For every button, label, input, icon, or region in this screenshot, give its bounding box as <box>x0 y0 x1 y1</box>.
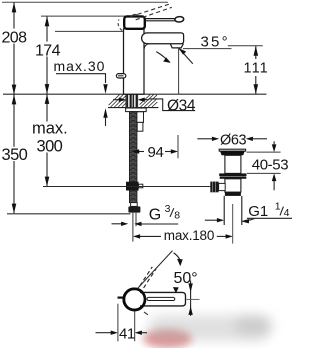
svg-text:Ø63: Ø63 <box>220 132 247 148</box>
spout outlet extension line down <box>178 48 180 94</box>
extension below nut <box>132 213 134 242</box>
hose end tube <box>131 203 138 207</box>
dimension 41 <box>117 304 119 342</box>
extension line cap-top level <box>41 15 129 17</box>
dimension line 174/max300 (x=47) <box>46 17 48 186</box>
svg-text:max.: max. <box>32 120 68 138</box>
extension line spout-top level <box>55 30 124 32</box>
dimension diam63 <box>197 138 212 140</box>
pop-up rod guide blocks <box>137 112 144 123</box>
pop-up waste flange <box>219 149 245 151</box>
dimension max.180 <box>133 234 140 238</box>
lever swing phantom arc <box>118 20 122 31</box>
dimension line 208/350 (x=14) <box>13 3 15 214</box>
svg-text:41: 41 <box>119 326 135 343</box>
pop-up rod horizontal <box>43 186 210 188</box>
svg-text:94: 94 <box>148 144 164 161</box>
washer under deck <box>126 108 147 112</box>
lever bar <box>145 18 176 20</box>
pop-up upper body <box>225 155 241 173</box>
watermark red blob <box>143 329 192 348</box>
max.30 arrows at deck <box>103 84 107 94</box>
top view circle (faucet body) <box>124 289 145 310</box>
svg-text:G1: G1 <box>248 203 268 220</box>
deck hatching left <box>109 95 126 107</box>
cartridge cap <box>124 16 145 28</box>
small tick lower right of circle <box>144 312 148 315</box>
svg-text:1: 1 <box>275 200 281 212</box>
350 lower extension line <box>7 213 130 215</box>
watermark grey blur <box>148 315 270 341</box>
threaded shank through deck <box>126 94 138 107</box>
pop-up tailpipe <box>224 196 242 225</box>
rod stem <box>219 183 226 190</box>
svg-text:35°: 35° <box>201 33 230 50</box>
lever tip <box>175 16 184 22</box>
body-spout fillet <box>144 44 150 49</box>
svg-text:300: 300 <box>37 137 63 155</box>
faucet body <box>124 29 145 94</box>
svg-text:Ø34: Ø34 <box>167 97 196 114</box>
dimension arrows diam34 at deck <box>113 99 119 101</box>
deck bottom line <box>108 107 159 109</box>
deck reference line <box>3 93 267 95</box>
faucet axis line <box>131 95 133 112</box>
dimension 111 <box>255 46 257 94</box>
lever pivot hook <box>132 14 138 16</box>
svg-text:111: 111 <box>244 60 269 76</box>
pop-up bottom collar <box>225 192 241 196</box>
G1 1/4 arrows at pipe <box>205 219 217 221</box>
lever phantom dashed 50deg <box>138 251 173 289</box>
svg-text:50°: 50° <box>174 270 198 287</box>
hose column under deck <box>130 112 137 203</box>
svg-text:174: 174 <box>35 42 61 59</box>
svg-text:40-53: 40-53 <box>252 157 288 174</box>
extension line top (raised lever level) <box>2 1 168 3</box>
35deg diagonal with arrow <box>179 49 193 64</box>
G1 1/4 underline <box>247 217 292 219</box>
dimension 40-53 <box>247 151 281 153</box>
top view lever <box>140 292 186 306</box>
svg-text:max.30: max.30 <box>54 58 106 74</box>
diam34 leader <box>149 99 195 111</box>
dimension 94 <box>138 151 144 153</box>
svg-text:3: 3 <box>165 203 171 215</box>
rod knob <box>210 182 218 193</box>
arrowheads on x=14 line <box>12 2 17 213</box>
G3/8 nut <box>128 206 140 212</box>
top view left stub <box>118 297 125 299</box>
svg-text:4: 4 <box>284 207 290 219</box>
spout outlet (mousseur) <box>170 44 183 48</box>
svg-text:G: G <box>149 206 161 223</box>
pop-up axis extension <box>232 204 234 244</box>
35deg leader/ext line <box>183 48 232 50</box>
50deg arc with arrow <box>174 253 181 262</box>
pop-up lock ring <box>219 173 246 176</box>
svg-text:max.180: max.180 <box>164 228 214 243</box>
lever height arrows at x=190.5 <box>190 281 192 316</box>
deck hatching right <box>140 95 158 107</box>
G3/8 underline and arrows <box>141 223 178 225</box>
35deg arc arrow <box>156 52 169 62</box>
pop-up knob nub on body <box>116 74 125 78</box>
rod clamp block <box>126 182 139 191</box>
raised lever phantom (dashed) <box>131 4 170 17</box>
svg-text:8: 8 <box>174 210 180 222</box>
pop-up lower body <box>225 179 241 192</box>
spout housing <box>142 33 184 44</box>
svg-text:350: 350 <box>2 146 28 164</box>
arrow onto lever <box>173 287 179 293</box>
svg-text:208: 208 <box>2 30 28 47</box>
